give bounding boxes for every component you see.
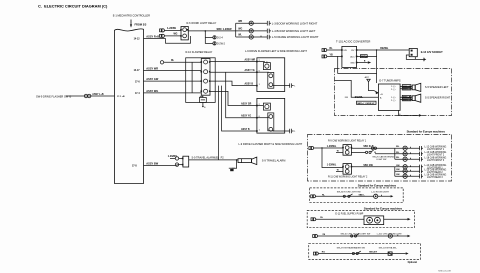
bulb room light [374,194,378,198]
svg-text:ASSY B: ASSY B [245,83,254,86]
svg-text:SW-11 EXTRA SEL.: SW-11 EXTRA SEL. [379,247,398,250]
svg-text:LIGHT FRONT 3: LIGHT FRONT 3 [427,160,445,162]
tick chg room [397,235,399,236]
wire 17-4 to relay [144,92,202,94]
svg-text:2 (−): 2 (−) [391,100,396,102]
row4 cab light rear1 [395,166,420,168]
pin squares lamp box2 [256,105,258,107]
svg-text:Standard for Europe machines: Standard for Europe machines [364,207,403,211]
E component box under relay [199,98,206,103]
wire pin 14-12 to R-6 coil loop [144,36,191,43]
bulb chg room light [388,234,392,238]
svg-text:SBC 1-230W: SBC 1-230W [217,27,233,31]
relay R-10 inner box [201,59,210,96]
exit bracket box1 [290,83,294,87]
relay1 box [343,145,351,156]
pin squares R-6 [180,29,182,31]
speaker left [412,85,415,90]
input connector room light [311,195,314,198]
svg-text:ASSY WR: ASSY WR [245,58,256,61]
wire relay out B to lamp box1 pin3 [210,81,257,86]
wire branch B down to lamp box2 pin3 [222,86,257,131]
wire input to relay1 [314,147,343,149]
relay1 output wire to bus [351,147,394,149]
E-13 socket box [409,48,417,56]
exit bracket box2 [290,129,294,133]
wire GND to ground [357,62,368,64]
connector bracket L-4 [267,29,271,34]
row1 cab light front1 [395,147,420,149]
relay2 box [343,164,351,175]
svg-text:E-13 12V SOCKET: E-13 12V SOCKET [421,50,443,54]
wire relay out GR down to lamp box2 pin1 [210,91,257,105]
svg-text:ASSY YG: ASSY YG [241,115,251,118]
svg-text:A: A [380,96,382,99]
extra breaker dashed box [309,243,421,259]
converter input connector RL [322,49,325,52]
svg-text:S-5 SPEAKER LEFT: S-5 SPEAKER LEFT [425,85,449,89]
svg-text:24V: 24V [343,50,347,52]
svg-text:E-11 FUEL SUPPLY PUMP: E-11 FUEL SUPPLY PUMP [335,213,363,215]
svg-text:ASSY BW: ASSY BW [146,161,158,165]
wire power into tuner area [338,56,377,73]
svg-text:1: 1 [259,84,261,86]
switch extra [352,252,354,254]
travel alarm connector pins [175,157,178,160]
svg-text:ASSY WG: ASSY WG [146,89,158,93]
wire room light [316,195,374,197]
E pin wire [202,102,204,106]
wire 14-17 to relay [144,69,202,71]
relay R-10 contact 4 [204,89,208,93]
svg-text:LIGHT SW: LIGHT SW [376,159,386,161]
svg-text:WR: WR [238,21,242,23]
row6 rear light [395,175,420,177]
svg-text:WG: WG [238,29,242,31]
horn S-9 travel alarm [238,159,252,163]
svg-text:GW: GW [396,165,400,167]
wire junction down to D-2 connectors [205,31,213,44]
speaker right [412,96,415,101]
svg-text:12V: 12V [351,50,355,52]
svg-text:S-9 TRAVEL ALARM(B) P2: S-9 TRAVEL ALARM(B) P2 [192,155,225,159]
svg-text:FM: FM [345,97,348,99]
wire extra row [318,253,405,255]
fuel pump dashed box [307,210,414,227]
bulb L-5 [249,35,253,39]
svg-text:1: 1 [294,131,296,133]
tick on L-5 wire [260,36,262,37]
svg-text:GW: GW [396,174,400,176]
flasher lamp sub-box box2 [263,103,270,110]
svg-text:L-9 DRIVE FLASHER LEFT & SIDE: L-9 DRIVE FLASHER LEFT & SIDE WORKING LI… [245,49,307,53]
svg-text:L-9 DRIVE FLASHER RIGHT & SIDE: L-9 DRIVE FLASHER RIGHT & SIDE WORKING L… [239,142,303,146]
svg-text:FROM 3/3: FROM 3/3 [135,22,147,26]
svg-text:L-5 FRAME WORKING LIGHT RIGHT: L-5 FRAME WORKING LIGHT RIGHT [272,35,319,39]
wire acc into tuner [335,80,379,97]
controller E-1 box [115,29,144,184]
wire connector2 to relay R-6 [164,35,181,37]
wire SW-9 to controller [66,95,115,97]
wire RL to relay R-10 [164,61,202,63]
svg-text:ASSY R+B: ASSY R+B [146,35,159,39]
svg-text:RG: RG [322,252,326,254]
relay R-6 contact [183,28,187,32]
svg-text:LIGHT FRONT 1: LIGHT FRONT 1 [427,149,445,151]
svg-text:SBE L: SBE L [359,195,366,197]
svg-text:RL: RL [171,60,175,62]
flasher lamp sub-box box1 [263,63,270,70]
ground bracket socket [423,58,425,62]
side light sub-box box1 [268,72,274,88]
junction dot R-6 output [205,30,207,32]
junction travel alarm [236,159,238,161]
svg-text:1: 1 [259,129,261,131]
converter T-101 box [342,46,357,67]
relay R-10 contact 1 [204,60,208,64]
svg-text:2 (−): 2 (−) [391,89,396,91]
wire branch D-2-4 [205,36,213,38]
relay pin squares [201,61,203,63]
svg-text:SBC GW: SBC GW [363,165,373,167]
svg-text:R-10 FLASHER RELAY: R-10 FLASHER RELAY [186,50,213,54]
svg-text:D-2-4: D-2-4 [217,37,223,39]
svg-text:DC2WL: DC2WL [355,97,364,99]
svg-text:YB: YB [322,234,325,236]
wire fuel pump [316,218,364,220]
svg-text:Optional: Optional [408,261,418,264]
relay1 coil return wire [336,151,343,153]
connector bracket L-3 [267,21,271,26]
converter input connector YB [322,55,325,58]
bulb L-3 [249,21,253,25]
fuel pump symbol [364,216,384,225]
wire chg room light row [318,235,408,237]
wire relay out YG to lamp box1 pin2 [210,71,257,73]
relay R-10 outer box [186,58,216,103]
svg-text:ASSY L+B: ASSY L+B [92,93,104,96]
working light bus [235,23,237,37]
svg-text:WG: WG [174,34,178,36]
svg-text:E-7 TUNER AMPS: E-7 TUNER AMPS [379,79,400,83]
svg-text:L-10 ROOM LIGHT: L-10 ROOM LIGHT [371,192,390,194]
svg-text:ASSY YG: ASSY YG [245,69,255,72]
svg-text:1-230WL: 1-230WL [327,164,337,166]
svg-text:R-6 WORK LIGHT RELAY: R-6 WORK LIGHT RELAY [187,21,217,25]
input connector Europe box1 [309,147,312,150]
svg-text:SW-9 DRIVE FLASHER SW B: SW-9 DRIVE FLASHER SW B [36,94,71,98]
connector on SW-9 wire [84,94,87,97]
svg-text:Standard for Europe machines: Standard for Europe machines [358,183,397,187]
bus relay1 lights [394,148,396,159]
arrow from 1/3 [130,20,132,26]
svg-text:R-9 CAB WORKING LIGHT RELAY 1: R-9 CAB WORKING LIGHT RELAY 1 [328,139,367,142]
wire junction to ground [232,160,237,168]
wire RL to converter [327,49,342,51]
svg-text:E-1 MECHATRO CONTROLLER: E-1 MECHATRO CONTROLLER [113,13,150,17]
connector D-2-4 [213,36,216,39]
svg-text:C. ELECTRIC CIRCUIT DIAGRAM (: C. ELECTRIC CIRCUIT DIAGRAM (C) [38,4,108,9]
wire pump to arrow [384,218,408,220]
wire YB to converter [327,55,342,57]
svg-text:1-232RG: 1-232RG [168,156,178,158]
switch SW cab working light [366,151,368,153]
svg-text:14-17: 14-17 [134,69,141,72]
svg-text:1-233W: 1-233W [167,26,177,30]
ground travel alarm [229,167,235,169]
lamp box2 exit wire [273,130,290,132]
svg-text:T-101 AC-DC CONVERTER: T-101 AC-DC CONVERTER [336,40,370,44]
arrow end chg room [408,235,411,238]
room light dashed box [310,188,404,202]
svg-text:17-8: 17-8 [132,165,137,167]
svg-text:ACC: ACC [350,55,355,58]
svg-text:14-12: 14-12 [134,38,141,41]
bus relay2 lights [394,167,396,176]
wire 17-6 to relay [144,80,202,82]
relay R-6 box [181,27,188,40]
ground arrow converter [368,61,371,64]
boxed label SBF(+) 1 SIDE UP [357,101,377,104]
svg-text:GW: GW [396,169,400,171]
wire 12V to socket [357,49,410,51]
row2 cab light front2 [395,153,420,155]
svg-text:L-3 BOOM WORKING LIGHT RIGHT: L-3 BOOM WORKING LIGHT RIGHT [272,21,318,25]
input connector chg room [313,235,316,238]
svg-text:S-5 SPEAKER RIGHT: S-5 SPEAKER RIGHT [425,96,451,100]
junction 12V down to tuner [376,49,377,50]
relay R-6 coil [183,34,187,38]
tuner ground arrow [419,114,422,117]
svg-text:Standard for Europe machines: Standard for Europe machines [407,130,446,134]
svg-text:YB: YB [330,54,334,56]
wire 17-8 to travel alarm connector [144,164,176,166]
relay internal bus line [191,62,193,93]
connector D-2W-2 [213,42,216,45]
svg-text:ASSY WR: ASSY WR [146,66,158,70]
svg-text:W: W [337,169,339,171]
row5 cab light rear2 [395,170,420,172]
connector bracket L-5 [267,35,271,40]
row3 cab light front3 [395,158,420,160]
svg-text:LIGHT FRONT 2: LIGHT FRONT 2 [427,155,445,157]
boxed label SBF(+) [360,55,367,58]
arrow end fuel pump [408,218,411,221]
input connector extra [314,252,317,255]
wire R-6 output to bus [188,30,267,32]
lamp box1 exit wire [273,85,290,87]
boxed labels speaker left [402,85,411,88]
speaker right wires [400,97,412,99]
svg-text:17-1 +B: 17-1 +B [117,96,125,98]
svg-text:ASSY GW: ASSY GW [146,77,159,81]
svg-text:1 (+): 1 (+) [391,97,396,99]
travel alarm connector box [183,156,189,167]
svg-text:ASSY B: ASSY B [241,128,250,131]
relay2 output wire to bus [351,166,394,168]
svg-text:ANT: ANT [365,76,370,79]
svg-text:SW-47 EXTRA/BREAKER SW: SW-47 EXTRA/BREAKER SW [337,247,365,250]
svg-text:17-4: 17-4 [135,92,140,95]
input connector fuel pump [311,218,314,221]
boxed labels speaker right [402,95,411,98]
tuner E-7 box [378,84,400,110]
component extra sel [388,252,392,255]
side light sub-box box2 [268,113,274,131]
wire relay out WR to lamp box1 pin1 [210,61,257,63]
svg-text:SBF(+): SBF(+) [361,56,368,58]
tuner dash-dot enclosure [335,69,452,116]
switch chg room light [351,235,353,237]
wire branch down to travel alarm [218,86,220,160]
pin squares lamp box1 [256,61,258,63]
connector RL pin [160,61,163,64]
svg-text:RE2WL: RE2WL [380,48,389,50]
wire connector to horn [189,159,238,161]
svg-text:SBEA LY: SBEA LY [403,88,412,91]
lamp box2 (L-9 right) [257,98,285,133]
relay2 coil return wire [336,170,343,172]
relay R-10 contact 3 [204,79,208,83]
svg-text:W: W [337,150,339,152]
relay R-10 contact 2 [204,70,208,74]
svg-text:ASSY GR: ASSY GR [241,103,252,106]
svg-text:1: 1 [294,86,296,88]
svg-text:S-9 TRAVEL ALARM: S-9 TRAVEL ALARM [262,159,286,163]
lamp box1 (L-9 left) [257,58,285,92]
tuner ground wire [399,110,419,115]
svg-text:D-2W-2: D-2W-2 [217,43,226,45]
wire branch YG down to lamp box2 pin2 [226,72,257,118]
svg-text:SBF(+) 1 SIDE UP: SBF(+) 1 SIDE UP [357,103,375,105]
connector to R-6 pin1 [160,29,162,32]
wire down to relay2 [322,148,343,168]
wire ACC [357,55,377,57]
inline connector on relay1 output [371,147,373,149]
svg-text:SBCA R: SBCA R [369,251,377,254]
svg-text:17-6: 17-6 [135,82,140,84]
arrow end extra [406,252,409,255]
wire to L-3 [236,22,268,24]
wire to L-5 [236,36,268,38]
svg-text:R-11 CAB WORKING LIGHT RELAY 2: R-11 CAB WORKING LIGHT RELAY 2 [328,175,368,178]
bulb L-4 [249,29,253,33]
svg-text:E: E [204,107,206,109]
wire socket to ground [406,55,424,59]
svg-text:L-4 BOOM WORKING LIGHT LEFT: L-4 BOOM WORKING LIGHT LEFT [272,29,316,33]
svg-text:GND: GND [350,63,355,65]
svg-text:LIGHT REAR 3: LIGHT REAR 3 [427,176,443,179]
svg-text:1-230WL: 1-230WL [327,146,337,148]
svg-text:1 (+): 1 (+) [391,86,396,88]
speaker left wires [400,86,412,88]
Europe working light dash-dot box [308,135,452,182]
svg-text:+B: +B [380,94,383,96]
arrow end room light [391,195,394,197]
wire switch to row2 [375,153,395,155]
svg-text:WL: WL [238,35,242,37]
connector to R-6 pin2 [160,34,162,37]
wire bulb to end [378,195,391,197]
wire connector to relay R-6 [164,29,181,31]
switch room light [343,195,345,197]
svg-text:SW-40 ROOM LIGHT SW: SW-40 ROOM LIGHT SW [337,192,361,194]
svg-text:KM16-05-038: KM16-05-038 [438,271,451,273]
svg-text:SBEA LB: SBEA LB [403,99,413,102]
